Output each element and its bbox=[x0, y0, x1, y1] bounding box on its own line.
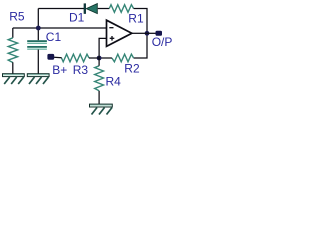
terminal O/P square bbox=[156, 31, 163, 36]
wire right rail lower segment bbox=[134, 33, 147, 58]
wire R3 to junction bbox=[89, 57, 99, 59]
svg-text:B+: B+ bbox=[52, 63, 67, 77]
node output junction bbox=[145, 31, 150, 36]
capacitor C1 bbox=[27, 40, 47, 50]
svg-text:O/P: O/P bbox=[152, 35, 173, 49]
wire output to terminal bbox=[147, 32, 156, 34]
svg-text:R2: R2 bbox=[124, 62, 140, 76]
wire R1 to right rail corner bbox=[134, 9, 147, 34]
wire top feedback left segment bbox=[38, 8, 84, 10]
wire B+ to R3 bbox=[54, 56, 62, 59]
svg-text:C1: C1 bbox=[46, 30, 62, 44]
ground under R5 bbox=[3, 74, 25, 84]
diode D1 bbox=[84, 4, 97, 14]
wire R2 to center junction bbox=[99, 57, 112, 59]
ground bottom (under R4) bbox=[90, 104, 113, 114]
resistor R2 bbox=[112, 54, 134, 62]
resistor R3 bbox=[62, 54, 90, 62]
wire inverting input row bbox=[13, 27, 107, 29]
node center junction bbox=[97, 56, 102, 61]
wire D1 to R1 bbox=[98, 8, 110, 10]
wire R5 top stub bbox=[12, 28, 14, 38]
svg-text:R4: R4 bbox=[106, 74, 122, 88]
wire C1 to ground bbox=[37, 50, 39, 74]
resistor R5 bbox=[8, 38, 17, 63]
resistor R1 bbox=[109, 5, 133, 13]
terminal B+ square bbox=[47, 54, 54, 60]
svg-text:R3: R3 bbox=[73, 63, 89, 77]
wire R4 to ground bbox=[98, 91, 100, 105]
wire op-amp output bbox=[132, 32, 147, 34]
wire riser to op-amp plus input bbox=[99, 38, 106, 58]
resistor R4 bbox=[95, 66, 104, 91]
wire R5 to ground bbox=[12, 62, 14, 74]
svg-text:R5: R5 bbox=[9, 10, 25, 24]
wire left vertical from top corner bbox=[37, 9, 39, 41]
ground under C1 bbox=[27, 74, 49, 84]
node left junction bbox=[36, 26, 41, 31]
svg-text:R1: R1 bbox=[128, 11, 144, 25]
svg-text:D1: D1 bbox=[69, 11, 85, 25]
wire junction to R4 bbox=[98, 58, 100, 66]
op-amp U1 bbox=[107, 20, 132, 46]
